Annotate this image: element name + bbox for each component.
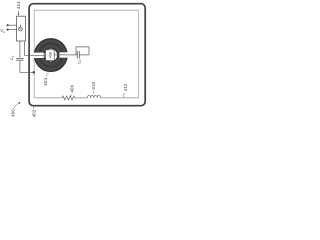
svg-text:404: 404	[43, 77, 48, 85]
svg-text:406: 406	[70, 84, 75, 92]
svg-text:412: 412	[123, 83, 128, 91]
svg-text:408: 408	[48, 52, 52, 58]
svg-text:410: 410	[91, 81, 96, 89]
svg-text:400: 400	[10, 109, 15, 117]
svg-text:414: 414	[16, 1, 21, 9]
svg-text:402: 402	[32, 109, 37, 117]
